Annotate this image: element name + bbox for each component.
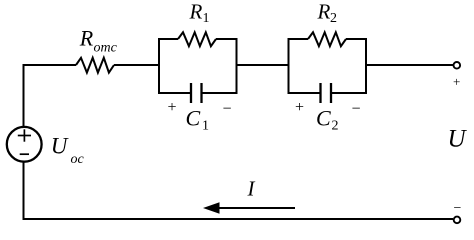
RC block 1 frame: right edge (236, 39, 238, 93)
svg-text:1: 1 (202, 119, 209, 134)
wire: left rail lower segment (23, 162, 25, 220)
svg-text:+: + (168, 99, 177, 116)
svg-text:−: − (223, 101, 232, 118)
label R1 (189, 0, 210, 26)
wire: block2 top edge right stub (346, 38, 367, 40)
capacitor C1 (191, 83, 202, 103)
svg-text:−: − (454, 201, 462, 216)
svg-text:R: R (189, 0, 203, 24)
wire: block1 top edge left stub (158, 38, 178, 40)
svg-text:−: − (352, 101, 361, 118)
wire: left rail upper segment (23, 64, 25, 127)
terminal positive (454, 62, 461, 69)
svg-text:+: + (295, 99, 304, 116)
label C2 (316, 106, 339, 134)
wire: bottom rail (23, 218, 454, 220)
resistor R2 (308, 32, 346, 46)
wire: top-left horizontal from left rail to Romc (24, 64, 77, 66)
RC block 2 frame: right edge (365, 39, 367, 93)
svg-text:U: U (448, 126, 468, 153)
voltage source Uoc (7, 127, 42, 162)
svg-text:R: R (317, 0, 331, 24)
wire: block2 top edge left stub (288, 38, 309, 40)
wire: block2 to positive terminal (366, 64, 453, 66)
svg-text:omc: omc (94, 41, 118, 56)
label Uoc (51, 134, 85, 168)
svg-text:2: 2 (332, 119, 339, 134)
wire: block2 bottom edge right stub (331, 92, 367, 94)
svg-text:oc: oc (71, 152, 85, 167)
wire: block2 bottom edge left stub (288, 92, 321, 94)
terminal negative (454, 217, 461, 224)
wire: block1 to block2 (237, 64, 289, 66)
wire: Romc to RC block 1 (114, 64, 159, 66)
label source minus (20, 153, 29, 155)
label C1 (186, 106, 210, 134)
resistor R1 (178, 32, 216, 46)
svg-text:+: + (453, 74, 460, 89)
label R2 (317, 0, 338, 26)
svg-text:U: U (51, 134, 69, 159)
RC block 2 frame: left edge (288, 39, 290, 93)
RC block 1 frame: left edge (158, 39, 160, 93)
current arrow I (203, 202, 295, 213)
label Romc (79, 26, 118, 56)
svg-text:I: I (247, 177, 256, 201)
capacitor C2 (321, 83, 332, 103)
svg-text:C: C (316, 106, 331, 131)
svg-text:R: R (79, 26, 94, 51)
svg-text:1: 1 (203, 11, 210, 26)
svg-text:2: 2 (330, 11, 337, 26)
label source plus (18, 129, 31, 141)
wire: block1 bottom edge right stub (202, 92, 238, 94)
wire: block1 top edge right stub (216, 38, 238, 40)
resistor Romc (76, 58, 114, 73)
wire: block1 bottom edge left stub (158, 92, 191, 94)
svg-text:C: C (186, 106, 201, 131)
